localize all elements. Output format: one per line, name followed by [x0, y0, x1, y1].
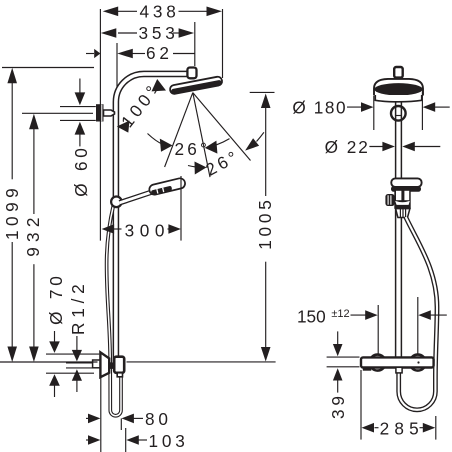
front view: ball joint [391, 106, 406, 121]
dimension diameter 60 [60, 79, 96, 197]
svg-text:103: 103 [149, 431, 189, 451]
spray line L1 [165, 93, 193, 167]
dimension diameter 180 [292, 92, 449, 131]
dimension R1/2 [66, 279, 93, 392]
svg-text:285: 285 [380, 419, 424, 439]
dimension 1099 [2, 68, 94, 363]
handshower slider ring (side view) [111, 197, 122, 208]
svg-text:62: 62 [146, 43, 173, 63]
overhead shower head (side view, tilted) [169, 76, 222, 95]
front view: union circle right [410, 355, 426, 371]
svg-text:353: 353 [139, 23, 179, 43]
svg-text:Ø 22: Ø 22 [325, 137, 370, 157]
angle 26 deg (first): arcs + arrowheads + label [148, 134, 230, 160]
svg-text:300: 300 [125, 221, 170, 241]
svg-text:39: 39 [328, 392, 348, 419]
front view: union circle left [370, 355, 386, 371]
dimension diameter 70 [46, 272, 100, 397]
front view: head connector [394, 67, 403, 78]
dimension 103 [86, 428, 189, 452]
handshower handle (side view) [120, 192, 153, 203]
shower arm connector block (side view) [187, 68, 196, 79]
svg-text:1099: 1099 [2, 184, 22, 240]
front view: handshower in holder [385, 178, 421, 217]
handshower hose (side view) with U-loop [107, 205, 121, 416]
front view: overhead shower head [374, 79, 423, 102]
svg-text:Ø 70: Ø 70 [46, 272, 66, 324]
svg-text:Ø 180: Ø 180 [292, 97, 347, 117]
svg-text:±12: ±12 [331, 308, 349, 320]
bottom reference line at wall outlet centre [0, 361, 98, 363]
svg-text:150: 150 [297, 307, 326, 327]
svg-text:Ø 60: Ø 60 [71, 144, 91, 196]
svg-text:932: 932 [23, 212, 43, 256]
dimension 353 [101, 22, 195, 66]
wall bar holder (side view) [96, 104, 115, 121]
svg-text:438: 438 [140, 2, 180, 22]
reference line from outlet to front view valve [127, 361, 276, 363]
spray line L2 [193, 93, 210, 178]
wall outlet fitting (side view) [93, 352, 125, 377]
dimension 150 plus-minus 12 [297, 297, 447, 355]
shower pipe column (side view) [116, 74, 188, 362]
angle 100 deg: arc + arrowheads + label [117, 79, 166, 133]
dimension 62 [86, 43, 195, 87]
dimension 1005 [250, 92, 275, 361]
angle 26 deg (second): arcs + arrowheads + label [188, 132, 264, 180]
svg-text:1005: 1005 [255, 196, 275, 249]
front view: thermostat valve body [361, 357, 434, 373]
dimension 285 [361, 370, 436, 440]
svg-text:R1/2: R1/2 [68, 279, 88, 335]
dimension 80 [86, 409, 172, 430]
dimension 39 [327, 331, 360, 419]
handshower head (side view) [148, 177, 186, 195]
dimension 932 [22, 113, 93, 362]
svg-text:26°: 26° [175, 139, 211, 159]
svg-text:80: 80 [145, 409, 172, 429]
dimension diameter 22 [325, 137, 441, 157]
front view: shower pipe [395, 95, 402, 357]
dimension 300 [102, 176, 181, 241]
wall reference line [99, 9, 101, 452]
spray line L3 [193, 93, 251, 161]
front view: hose from handshower to valve with loop [399, 217, 437, 410]
dimension 438 [103, 2, 223, 78]
